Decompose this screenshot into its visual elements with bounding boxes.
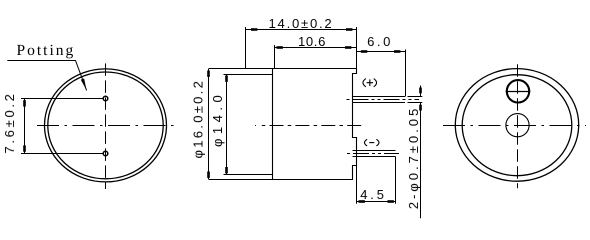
svg-text:2-φ0.7±0.05: 2-φ0.7±0.05 <box>406 106 421 210</box>
svg-text:7.6±0.2: 7.6±0.2 <box>2 91 17 153</box>
svg-text:10.6: 10.6 <box>298 34 326 49</box>
svg-text:4.5: 4.5 <box>360 187 386 202</box>
svg-text:φ14.0: φ14.0 <box>210 91 225 147</box>
svg-text:φ16.0±0.2: φ16.0±0.2 <box>190 79 205 159</box>
svg-text:14.0±0.2: 14.0±0.2 <box>269 16 334 31</box>
svg-text:6.0: 6.0 <box>367 34 393 49</box>
svg-text:Potting: Potting <box>16 42 75 59</box>
